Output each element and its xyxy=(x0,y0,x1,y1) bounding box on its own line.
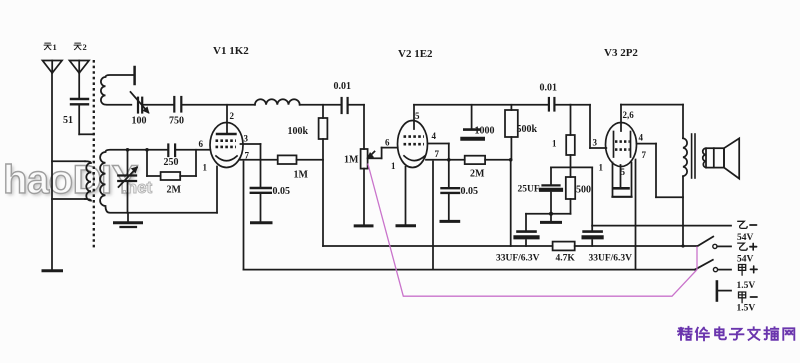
svg-text:25UF: 25UF xyxy=(518,185,540,195)
svg-text:250: 250 xyxy=(164,157,179,168)
svg-text:1.5V: 1.5V xyxy=(737,281,756,291)
svg-text:1: 1 xyxy=(203,163,208,173)
svg-text:0.05: 0.05 xyxy=(273,186,291,197)
svg-text:54V: 54V xyxy=(737,233,754,243)
svg-text:0.01: 0.01 xyxy=(540,83,558,94)
svg-text:0.01: 0.01 xyxy=(334,81,352,92)
svg-text:V2 1E2: V2 1E2 xyxy=(398,48,433,60)
svg-text:33UF/6.3V: 33UF/6.3V xyxy=(589,254,633,264)
svg-text:3: 3 xyxy=(593,138,598,148)
svg-text:4.7K: 4.7K xyxy=(556,254,576,264)
svg-text:3: 3 xyxy=(244,134,249,144)
svg-text:1M: 1M xyxy=(344,155,359,166)
svg-text:5: 5 xyxy=(621,167,626,177)
svg-text:1.5V: 1.5V xyxy=(737,304,756,314)
svg-text:7: 7 xyxy=(435,149,440,159)
svg-text:100: 100 xyxy=(132,116,147,127)
svg-text:33UF/6.3V: 33UF/6.3V xyxy=(496,254,540,264)
svg-text:7: 7 xyxy=(642,150,647,160)
svg-text:4: 4 xyxy=(432,131,437,141)
svg-text:2M: 2M xyxy=(167,185,182,196)
svg-text:4: 4 xyxy=(639,133,644,143)
svg-text:1: 1 xyxy=(599,163,604,173)
svg-text:500: 500 xyxy=(576,185,591,196)
svg-text:V3 2P2: V3 2P2 xyxy=(604,47,638,59)
svg-text:7: 7 xyxy=(245,151,250,161)
svg-text:500k: 500k xyxy=(517,124,538,135)
svg-text:V1 1K2: V1 1K2 xyxy=(213,45,249,57)
svg-text:2: 2 xyxy=(230,111,235,121)
svg-text:750: 750 xyxy=(169,116,184,127)
svg-text:2: 2 xyxy=(83,42,87,52)
svg-text:6: 6 xyxy=(385,138,390,148)
svg-text:1: 1 xyxy=(552,139,557,149)
svg-text:0.05: 0.05 xyxy=(461,186,479,197)
svg-text:5: 5 xyxy=(415,111,420,121)
svg-text:1000: 1000 xyxy=(475,126,495,137)
svg-text:2M: 2M xyxy=(470,169,485,180)
svg-text:1: 1 xyxy=(391,161,396,171)
svg-text:1M: 1M xyxy=(294,170,309,181)
svg-text:51: 51 xyxy=(63,115,73,126)
svg-text:54V: 54V xyxy=(737,255,754,265)
svg-text:2,6: 2,6 xyxy=(623,110,635,120)
svg-text:100k: 100k xyxy=(288,126,309,137)
svg-text:6: 6 xyxy=(199,139,204,149)
svg-text:1: 1 xyxy=(53,42,57,52)
